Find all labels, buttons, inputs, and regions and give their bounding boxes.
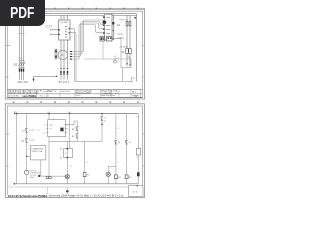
svg-text:Zeich.: Zeich. [76, 95, 81, 97]
motor circle M1 [58, 50, 68, 60]
wire box K bottom to horn branch [48, 137, 50, 177]
junction dot x102 [101, 124, 103, 126]
device T1 body b [129, 49, 132, 54]
sheet 1 border bottom inner (dark) [7, 96, 142, 98]
title block top line [7, 89, 142, 91]
device T1 body a [126, 49, 129, 54]
thin strip X3 [112, 15, 114, 41]
coil K1 [24, 170, 29, 174]
lamp branch link [108, 165, 116, 167]
box PS (power supply) [30, 146, 45, 160]
svg-text:22kW: 22kW [30, 177, 35, 179]
pin dots box FS [67, 148, 69, 150]
divider x47 [46, 187, 48, 195]
PE ground wire [34, 76, 57, 80]
contact K1 aux on x26.6 [25, 138, 28, 142]
sheet 2 bottom border [5, 197, 144, 199]
svg-text:M: M [61, 53, 63, 57]
bus line L1 [7, 13, 136, 15]
contact on x126.6 [125, 140, 128, 144]
lamp P2 (circle with X) [106, 172, 110, 176]
feeder terminal ticks top [18, 33, 24, 35]
box A (aux device) [100, 36, 104, 41]
svg-text:x1: x1 [70, 165, 72, 167]
fuse F2 body [129, 22, 131, 26]
timer box on x138.3 [136, 149, 140, 155]
title block top line [7, 186, 128, 188]
svg-text:Bl. 1: Bl. 1 [132, 91, 137, 93]
svg-text:12.01.05 Schmidt xxxx PANEL: 12.01.05 Schmidt xxxx PANEL [8, 194, 48, 198]
X2 left pin squares [103, 16, 105, 38]
wire bundle (4 conductors) motor sensor loop [72, 20, 103, 59]
svg-text:43: 43 [118, 142, 120, 144]
sheet 2 sheet-number cell [129, 186, 144, 197]
box K internal coil mark [60, 128, 63, 132]
svg-text:K4: K4 [118, 177, 120, 179]
svg-text:a2: a2 [43, 133, 45, 135]
svg-text:23 24: 23 24 [29, 140, 35, 142]
wire drop x115.9 [115, 114, 117, 184]
control wires into Q1 left pins [51, 29, 59, 35]
link x122.6 [122, 68, 124, 82]
svg-text:1 3 5: 1 3 5 [19, 58, 23, 60]
svg-text:-W01 4G6: -W01 4G6 [17, 81, 29, 84]
disconnect switch Q2 blades on feeder [18, 62, 25, 68]
svg-text:21: 21 [104, 117, 106, 119]
terminal strip X2 (right) [104, 14, 112, 40]
control fuse wire F2 [129, 15, 131, 66]
svg-text:L2: L2 [136, 116, 138, 118]
wire drop x126.6 [126, 114, 128, 184]
sheet 1 row letter ticks (left+right margins) [5, 46, 144, 77]
switch on x102 [101, 114, 103, 142]
junction dot rail x16.6 [16, 113, 18, 115]
dark device on x138.3 [137, 172, 140, 176]
sheet 2 row ticks [5, 134, 144, 166]
connector on X3 [112, 22, 114, 25]
phase wire L2 (left feeder) [21, 26, 23, 80]
wire: right bus drop [135, 14, 137, 82]
box K left pin ticks [46, 125, 48, 133]
phase wire L1 (left feeder) [19, 26, 21, 80]
wire drop lamp chain x67.3 [66, 141, 68, 184]
contact on x115.9 [115, 140, 118, 144]
sheet 2 inner frame [7, 106, 142, 195]
bus corner node [134, 17, 136, 19]
label left of branch [38, 175, 40, 177]
stub to box PS [27, 155, 31, 157]
dark plug connectors on motor wires [60, 71, 68, 74]
divider x67 with blob [66, 187, 68, 195]
box K right pin ticks [65, 125, 67, 133]
relay coil K3 on x84.6 [83, 173, 86, 177]
svg-text:24VDC: 24VDC [117, 34, 124, 36]
svg-text:Blatt 22-0-441 xx: Blatt 22-0-441 xx [101, 94, 115, 97]
wire drop x84.6 (from control link to coil K3) [84, 141, 86, 184]
svg-text:K2: K2 [72, 129, 74, 131]
block Q1 left pin terminals [58, 29, 60, 35]
svg-text:11: 11 [67, 125, 69, 127]
svg-text:-T1: -T1 [121, 51, 125, 54]
svg-text:A2: A2 [60, 156, 62, 159]
svg-text:0,5A gl: 0,5A gl [117, 37, 124, 40]
box K (relay module) [48, 120, 66, 137]
svg-text:N: N [138, 139, 140, 141]
rail N start dot [14, 183, 16, 185]
svg-text:12: 12 [67, 129, 69, 131]
svg-text:-W1 4G1.5: -W1 4G1.5 [58, 81, 70, 84]
sheet 1 inner frame [7, 11, 142, 97]
wire drop x69.6 [69, 114, 71, 149]
sensor cluster [114, 60, 117, 63]
wire from Q1 right pin 1 [70, 29, 75, 82]
svg-text:24VDC 2.5A: 24VDC 2.5A [32, 150, 43, 153]
svg-text:13 14: 13 14 [29, 130, 35, 132]
svg-text:Einspeisung 22kW: Einspeisung 22kW [76, 92, 91, 94]
terminal box right [121, 59, 131, 68]
overload device left of motor [55, 49, 57, 59]
svg-text:x2: x2 [86, 162, 88, 164]
horn H1 (two circles) [46, 176, 49, 179]
svg-text:Ers.d 0201: Ers.d 0201 [43, 91, 52, 93]
box B (aux device) [107, 36, 112, 41]
coil K5 on x126.6 [125, 175, 128, 179]
title block mid line [7, 93, 142, 95]
wire drop x26.6 [26, 114, 28, 171]
dot on X3 [113, 30, 114, 31]
svg-text:13: 13 [118, 128, 120, 130]
lamp P2 to rail N [107, 177, 109, 184]
wire drop x138.3 [137, 114, 139, 184]
motor terminal ticks right of circle [70, 51, 72, 60]
terminal blocks X1 (dark) on feeder [19, 69, 24, 72]
contact K2.1 on x77.2 [76, 127, 79, 131]
horizontal control link y141 [49, 140, 102, 142]
svg-text:-T1 63VA: -T1 63VA [119, 46, 128, 49]
lamp branch horizontal y176 [41, 175, 68, 177]
svg-text:A1: A1 [60, 148, 62, 151]
coil K1 to rail N [26, 175, 28, 184]
sheet 2 column ticks [13, 102, 139, 103]
bottom link wire y81 [75, 80, 134, 82]
aux contact branch from box K right pin [67, 121, 77, 141]
box FS (float switch) on x67.3 [64, 149, 73, 158]
svg-text:-F1 2A: -F1 2A [122, 19, 129, 22]
svg-text:-Q2: -Q2 [13, 62, 18, 66]
phase wire L3 (left feeder) [23, 26, 25, 80]
motor wires from Q1 bottom [61, 40, 68, 80]
svg-text:-K1: -K1 [21, 140, 25, 142]
junction dot rail x69.6 [69, 113, 71, 115]
PDF badge [0, 0, 45, 26]
terminal dots fuse wires [126, 63, 127, 64]
control rail L+ (top) [14, 113, 138, 115]
svg-text:x: x [123, 164, 124, 166]
junction dot on PE wire [56, 76, 58, 78]
dark connector blob on X2 [103, 21, 107, 24]
sheet 1 column number ticks (top margin) [13, 7, 139, 10]
sheet 2 outer frame [5, 104, 144, 198]
contact K2.2 on x77.2 [76, 134, 79, 138]
wire from Q1 right pin 2 [70, 33, 76, 82]
pin tick on box K top [53, 118, 55, 121]
contactor/starter block Q1 [59, 20, 70, 40]
svg-text:S2: S2 [72, 136, 74, 138]
svg-text:-X2 plc: -X2 plc [106, 14, 112, 16]
bus line L2 [7, 14, 136, 16]
svg-text:53: 53 [129, 142, 131, 144]
fuse F1 body [126, 22, 128, 26]
X2 internal pin labels [106, 17, 109, 38]
junction dot rail x49 [48, 113, 50, 115]
junction dot x26.6 [26, 156, 28, 158]
coil K4 on x115.9 [114, 175, 117, 179]
block Q1 right pin terminals [69, 28, 71, 33]
tick with label on y81 [131, 77, 133, 81]
wire drop x16.6 [16, 114, 18, 184]
svg-text:-Q1 3RV: -Q1 3RV [59, 22, 68, 24]
horizontal link wire y59 [84, 58, 131, 60]
block Q1 internal contact marks [65, 26, 67, 37]
box PS output wire [40, 160, 42, 176]
contact S1 on x26.6 [25, 128, 28, 132]
control fuse wire F1 [126, 15, 128, 66]
svg-text:PE: PE [132, 78, 135, 80]
end tick X3 [112, 38, 114, 39]
stub rail to box K [48, 114, 50, 120]
svg-text:x: x [117, 161, 118, 163]
control rail N (bottom) [14, 183, 138, 185]
svg-text:-S1: -S1 [21, 130, 25, 132]
PE terminal arrow [33, 79, 35, 82]
svg-text:a1: a1 [43, 125, 45, 127]
svg-text:/1.4: /1.4 [37, 129, 40, 131]
svg-text:t1: t1 [136, 156, 138, 159]
wire from box B to riser [112, 39, 121, 59]
top border emphasis [5, 8, 144, 10]
svg-text:-F1: -F1 [117, 24, 121, 27]
wire stubs bus to Q1 top [61, 15, 68, 20]
feeder symbol dashes [19, 60, 25, 62]
sheet 1 outer frame [5, 9, 144, 99]
svg-text:400V 50Hz: 400V 50Hz [61, 91, 70, 93]
junction dot rail x102 [101, 113, 103, 115]
svg-text:ps: ps [117, 58, 119, 60]
lamp P1 (circle with X) [65, 175, 69, 179]
svg-text:22: 22 [104, 121, 106, 123]
svg-text:L1 L2: L1 L2 [46, 28, 50, 30]
terminal ticks on motor wires [60, 69, 69, 75]
svg-text:K5: K5 [129, 177, 131, 179]
svg-text:K3: K3 [87, 175, 89, 177]
vertical link x103 [102, 41, 104, 59]
title block vertical dividers [10, 90, 140, 98]
